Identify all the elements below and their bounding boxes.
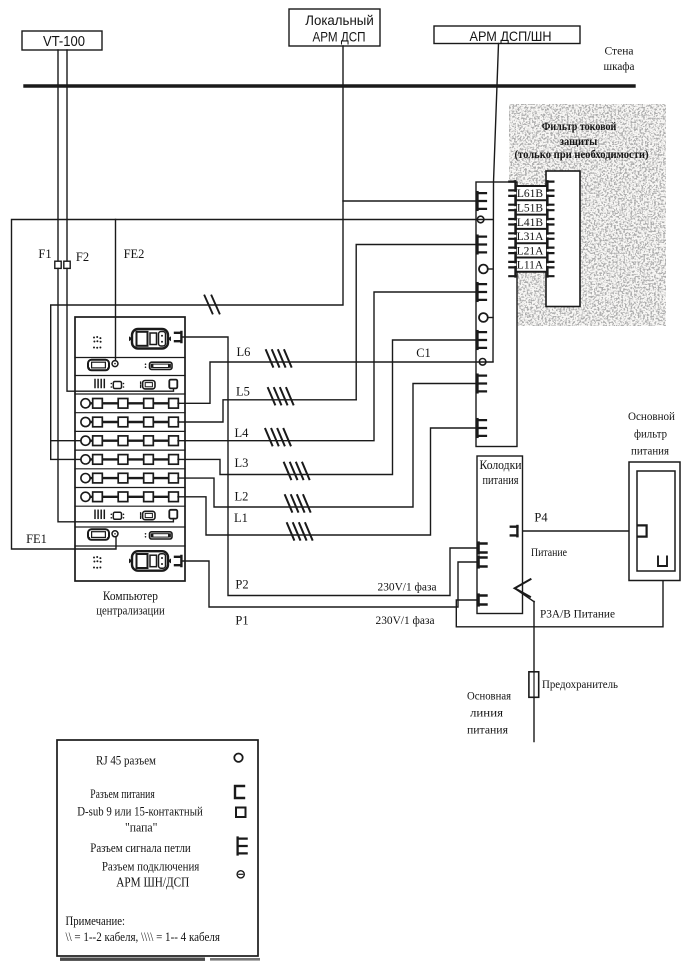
wire L3 from loop module to E4 connector — [178, 340, 478, 475]
svg-text:питания: питания — [483, 473, 519, 487]
⊕ FE2 connector on panel 2 — [112, 361, 118, 367]
wire L5 from loop module — [178, 400, 356, 422]
svg-text:L1: L1 — [234, 511, 248, 525]
cable mark \\\\ on wire — [287, 523, 312, 540]
terminal row line 6 — [517, 257, 546, 259]
RJ45 connector on column — [479, 313, 488, 322]
svg-text:централизации: централизации — [96, 604, 165, 618]
svg-text:"папа": "папа" — [125, 820, 158, 835]
АРМ ШН/ДСП connection socket (top) — [477, 216, 484, 223]
svg-text:230V/1 фаза: 230V/1 фаза — [378, 580, 438, 594]
scan smudge at bottom — [60, 958, 205, 961]
svg-text:L6: L6 — [237, 345, 251, 359]
loop signal connector E6 on column — [476, 419, 479, 437]
terminal block rows of current filter — [517, 186, 546, 272]
grey speckled background of current-protection filter zone — [509, 104, 666, 326]
wire P1 power 230V from bottom inlet to power block — [183, 561, 478, 607]
wire L6 / C1 from loop module to ⊕ connector on column — [178, 362, 493, 403]
svg-text:F1: F1 — [38, 247, 51, 261]
cable mark \\\\ on wire — [266, 350, 291, 367]
D-sub icon on panel 3 — [140, 382, 142, 388]
wire long loop: column ⊕ connector to far left, down and to FE1 connector of computer — [12, 220, 494, 550]
power connector on power block — [477, 595, 479, 606]
box АРМ ДСП/ШН — [434, 26, 580, 44]
loop module row L1 — [81, 492, 90, 501]
D-sub icon on panel 5 — [140, 513, 142, 519]
wire АРМ ДСП/ШН down to column connector — [493, 44, 499, 362]
wire branch to loop connector E1 on column — [343, 200, 478, 202]
loop signal connector E2 on column — [476, 236, 479, 254]
svg-text:L41B: L41B — [517, 217, 544, 229]
legend symbol D-sub male — [236, 808, 246, 818]
current-protection filter box — [546, 171, 580, 307]
svg-text:P4: P4 — [534, 511, 548, 525]
wire F1 to D-sub connector on lower rack panel — [58, 268, 173, 521]
legend symbol АРМ connection socket — [237, 871, 244, 878]
terminal row line 7 — [517, 271, 546, 273]
svg-text:Питание: Питание — [531, 545, 567, 559]
cable mark \\\\ on wire — [285, 495, 310, 512]
svg-text:(только при необходимости): (только при необходимости) — [515, 149, 649, 161]
svg-text:P1: P1 — [235, 614, 248, 628]
wire FE2 branch down to ⊕ connector on computer panel — [115, 220, 117, 361]
small connector icon on panel 5 — [111, 514, 113, 516]
svg-text:L2: L2 — [235, 490, 249, 504]
svg-text:L31A: L31A — [517, 231, 545, 243]
svg-text:Предохранитель: Предохранитель — [542, 677, 618, 691]
svg-text:АРМ ДСП: АРМ ДСП — [313, 30, 366, 45]
wide port connector on panel 2 — [145, 363, 147, 365]
terminal row line 4 — [517, 228, 546, 230]
serial port bars icon on panel 5 — [94, 510, 96, 518]
svg-text:Локальный: Локальный — [305, 13, 374, 28]
box Локальный АРМ ДСП — [289, 9, 380, 46]
legend box — [57, 740, 258, 956]
svg-text:шкафа: шкафа — [604, 61, 635, 73]
wire branch to L4 circle — [51, 440, 81, 442]
svg-text:L51B: L51B — [517, 203, 544, 215]
svg-text:\\ = 1--2 кабеля, \\\\ = 1--: \\ = 1--2 кабеля, \\\\ = 1-- 4 кабеля — [66, 930, 221, 944]
D-sub video connector on panel 2 — [88, 360, 109, 371]
cable mark // on wire — [205, 296, 220, 314]
column of АРМ ДСП/ШН connectors — [476, 182, 517, 447]
⊕ FE1 connector on panel 6 — [112, 531, 118, 537]
power connector on rack bottom panel — [175, 556, 181, 566]
svg-text:питания: питания — [631, 444, 669, 458]
svg-text:L4: L4 — [235, 426, 250, 440]
svg-text:Основная: Основная — [467, 689, 511, 703]
fuse F2 — [64, 261, 70, 268]
svg-text:питания: питания — [467, 723, 508, 737]
legend symbol power connector — [235, 786, 244, 798]
svg-text:Р3А/В Питание: Р3А/В Питание — [540, 607, 615, 621]
main power filter box (Основной фильтр питания) — [629, 462, 680, 581]
svg-text:АРМ ШН/ДСП: АРМ ШН/ДСП — [116, 875, 189, 890]
svg-text:F2: F2 — [76, 250, 89, 264]
wall of cabinet line (Стена шкафа) — [25, 84, 634, 87]
svg-text:L21A: L21A — [517, 245, 545, 257]
wire from VT-100 to fuse F1 — [57, 50, 59, 261]
svg-text:Колодки: Колодки — [480, 458, 522, 472]
svg-text:L61B: L61B — [517, 188, 544, 200]
svg-text:D-sub 9 или 15-контактный: D-sub 9 или 15-контактный — [77, 804, 203, 819]
svg-text:фильтр: фильтр — [634, 427, 667, 441]
wire P2 power 230V from top inlet to power block — [183, 337, 478, 596]
loop signal connector E1 on column — [476, 192, 479, 210]
cable mark \\\\ on wire — [284, 463, 309, 480]
svg-text:Фильтр токовой: Фильтр токовой — [542, 119, 617, 133]
svg-text:линия: линия — [470, 706, 504, 720]
wire L4 from loop module to E3 connector — [178, 292, 478, 441]
power inlet icon on top panel — [132, 329, 168, 349]
wire L1 from loop module to E6 connector — [178, 428, 478, 535]
wire P4 power block to main filter — [518, 530, 637, 532]
loop signal connector E4 on column — [476, 331, 479, 349]
svg-text:L11A: L11A — [517, 260, 544, 272]
svg-text:RJ 45 разъем: RJ 45 разъем — [96, 753, 156, 768]
svg-text:FE2: FE2 — [124, 247, 145, 261]
svg-text:VT-100: VT-100 — [43, 34, 85, 50]
loop signal connector E5 on column — [476, 375, 479, 393]
wire L2 from loop module to E5 connector — [178, 384, 478, 508]
loop module row L3 — [81, 455, 90, 464]
power connector on main filter — [638, 525, 647, 536]
small connector icon on panel 3 — [111, 383, 113, 385]
svg-text:L5: L5 — [236, 385, 250, 399]
terminal row line 5 — [517, 242, 546, 244]
RJ45 connector on column — [479, 265, 488, 274]
svg-text:защиты: защиты — [560, 134, 598, 148]
computer rack (Компьютер централизации) — [75, 317, 185, 581]
legend symbol loop signal connector E — [238, 838, 247, 855]
power connector P4 — [516, 526, 518, 536]
svg-text:FE1: FE1 — [26, 532, 47, 546]
loop module row L5 — [81, 417, 90, 426]
svg-text:Разъем питания: Разъем питания — [90, 786, 155, 801]
D-sub video connector on panel 6 — [88, 529, 109, 540]
wire P3A/B from power block down around to main filter U-connector — [456, 567, 663, 627]
svg-text:P2: P2 — [235, 578, 248, 592]
svg-text:230V/1 фаза: 230V/1 фаза — [376, 613, 436, 627]
fuse (Предохранитель) — [529, 672, 539, 698]
svg-text:Основной: Основной — [628, 409, 676, 423]
wire main power line with fuse — [533, 602, 535, 742]
cable mark \\\\ on wire — [265, 429, 290, 446]
loop module row L6 — [81, 399, 90, 408]
D-sub male square connector on panel 5 — [169, 510, 177, 519]
svg-text:Разъем подключения: Разъем подключения — [102, 859, 200, 874]
U connector at bottom of main filter — [658, 557, 667, 567]
wide port connector on panel 6 — [145, 533, 147, 535]
svg-text:АРМ ДСП/ШН: АРМ ДСП/ШН — [470, 28, 552, 44]
D-sub male square connector on panel 3 — [169, 380, 177, 389]
wire Локальный АРМ ДСП down, across and to RJ45 circles of loop modules L4 and L3 — [51, 46, 343, 459]
power connector on power block — [477, 543, 479, 554]
loop module row L4 — [81, 436, 90, 445]
cable mark \\\\ on wire — [268, 388, 293, 405]
arrow pointing to power block — [515, 588, 535, 602]
fuse F1 — [55, 261, 61, 268]
terminal row line 1 — [517, 185, 546, 187]
power terminal block box (Колодки питания) — [477, 456, 523, 614]
svg-text:L3: L3 — [235, 456, 249, 470]
wire E2 connector to L5 wire — [356, 245, 478, 400]
power connector on rack top panel — [175, 332, 181, 342]
power inlet icon on bottom panel — [132, 551, 168, 571]
svg-text:Примечание:: Примечание: — [66, 914, 126, 928]
serial port bars icon on panel 3 — [94, 380, 96, 388]
svg-text:Разъем сигнала петли: Разъем сигнала петли — [90, 840, 191, 855]
ventilation dots on top panel — [93, 337, 95, 339]
loop signal connector E3 on column — [476, 283, 479, 301]
АРМ ШН/ДСП connection socket C1 — [479, 359, 486, 366]
loop module row L2 — [81, 474, 90, 483]
terminal row line 2 — [517, 199, 546, 201]
legend symbol RJ45 — [234, 754, 242, 762]
wire F2 to D-sub connector on upper rack panel — [67, 268, 174, 391]
svg-text:Стена: Стена — [605, 46, 634, 58]
power connector on power block — [477, 557, 479, 568]
terminal VT-100 box — [22, 31, 102, 50]
svg-text:C1: C1 — [416, 346, 431, 360]
svg-text:Компьютер: Компьютер — [103, 589, 158, 603]
wire from VT-100 to fuse F2 — [66, 50, 68, 261]
terminal row line 3 — [517, 214, 546, 216]
ventilation dots on bottom panel — [93, 557, 95, 559]
